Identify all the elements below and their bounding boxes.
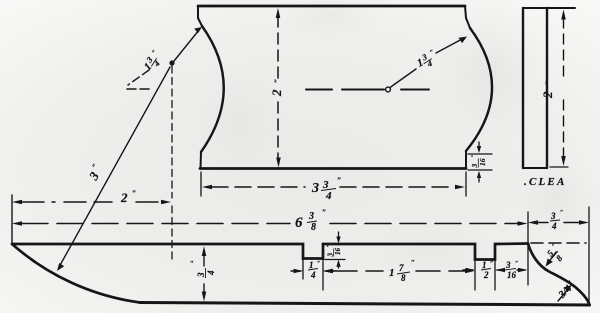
5/8" ogee label rotated [544,242,568,265]
seat 2" rotated [269,79,284,97]
1 7/8 dim [324,269,334,273]
seat 3 3/4 dim [200,172,202,196]
svg-text:″: ″ [273,79,282,83]
3/16 gap dim arrows [517,269,525,271]
notch1 3/16 depth dim [325,259,345,261]
cleat 2in dim [561,10,566,20]
svg-text:″: ″ [544,81,553,85]
seat centerline [306,89,429,91]
svg-text:1: 1 [309,260,314,270]
1/4 dim [291,270,301,272]
notch2 extensions [475,261,495,290]
svg-text:″: ″ [327,244,333,247]
svg-text:16: 16 [507,270,517,280]
svg-text:3: 3 [550,211,556,221]
3/4 height dim [203,252,205,296]
3/4" ogee label rotated [556,279,578,301]
svg-text:″: ″ [490,261,493,267]
6 3/8" label [295,208,326,233]
svg-text:″: ″ [337,176,341,185]
dashed top edge continuation [531,242,586,244]
seat 1 3/4" leader label [414,48,440,73]
svg-text:16: 16 [334,248,342,256]
3/4 ogee dim [558,288,569,301]
3/4" top right rotated [550,210,563,231]
svg-text:4: 4 [325,190,332,202]
svg-text:8: 8 [401,273,406,283]
svg-text:4: 4 [206,270,216,276]
cleat outline [522,8,524,168]
notch1 extensions [303,260,323,290]
center dot [169,60,174,65]
svg-text:1: 1 [389,267,395,279]
svg-text:″: ″ [317,261,320,267]
svg-text:8: 8 [311,222,316,233]
svg-text:″: ″ [560,210,563,216]
3/4 top right dim [528,220,538,225]
1 7/8" label [389,259,415,283]
dashes near 1 3/4 label [128,70,149,85]
runner outline [12,244,528,260]
svg-text:16: 16 [478,158,487,166]
svg-text:″: ″ [322,208,326,217]
1/2" notch2 label [481,260,493,280]
seat 3/16" rotated small [470,154,487,168]
2" front label [120,189,136,205]
svg-text:″: ″ [190,260,194,268]
leader 1 3/4 to right arc [390,69,416,88]
svg-text:.CLEA: .CLEA [524,176,566,188]
3/16" notch1 depth rotated [327,244,343,257]
3/4" height rotated [196,268,216,278]
svg-text:3: 3 [196,272,206,278]
svg-text:2: 2 [120,190,128,205]
svg-text:1: 1 [482,260,487,270]
svg-text:4: 4 [310,270,316,280]
cleat 2" rotated [540,81,555,99]
svg-text:″: ″ [471,154,477,157]
leader to left arc [174,30,199,61]
3in radius line [59,67,171,268]
svg-text:7: 7 [399,263,404,273]
2in front dim [12,200,22,205]
5/8 ogee dim [548,252,556,263]
top-left 1 3/4" rotated [140,48,167,75]
svg-text:3: 3 [311,181,319,196]
seat vertical 2in dim [276,8,281,18]
seat arc center circle [386,87,391,92]
svg-text:3: 3 [505,260,511,270]
left extension [11,195,13,244]
svg-text:4: 4 [551,221,557,231]
svg-text:2: 2 [540,91,555,99]
1/2 dim arrows [463,269,473,271]
seat piece outline [198,5,465,8]
svg-text:2: 2 [269,89,284,97]
6 3/8 dim [12,221,22,226]
3" radius label rotated [84,162,106,184]
svg-text:″: ″ [132,189,136,198]
3/16" gap label [505,260,518,280]
svg-text:″: ″ [411,259,415,267]
seat 3 3/4" [311,176,341,202]
svg-text:″: ″ [515,261,518,267]
svg-text:6: 6 [295,215,303,231]
svg-text:3: 3 [308,211,314,222]
vertical dashed from center dot [171,66,173,260]
svg-text:2: 2 [483,270,489,280]
seat 3/16 dim bottom right [468,154,492,170]
1/4" notch1 label [308,260,320,280]
extensions x=528 and x=589 [527,212,529,285]
